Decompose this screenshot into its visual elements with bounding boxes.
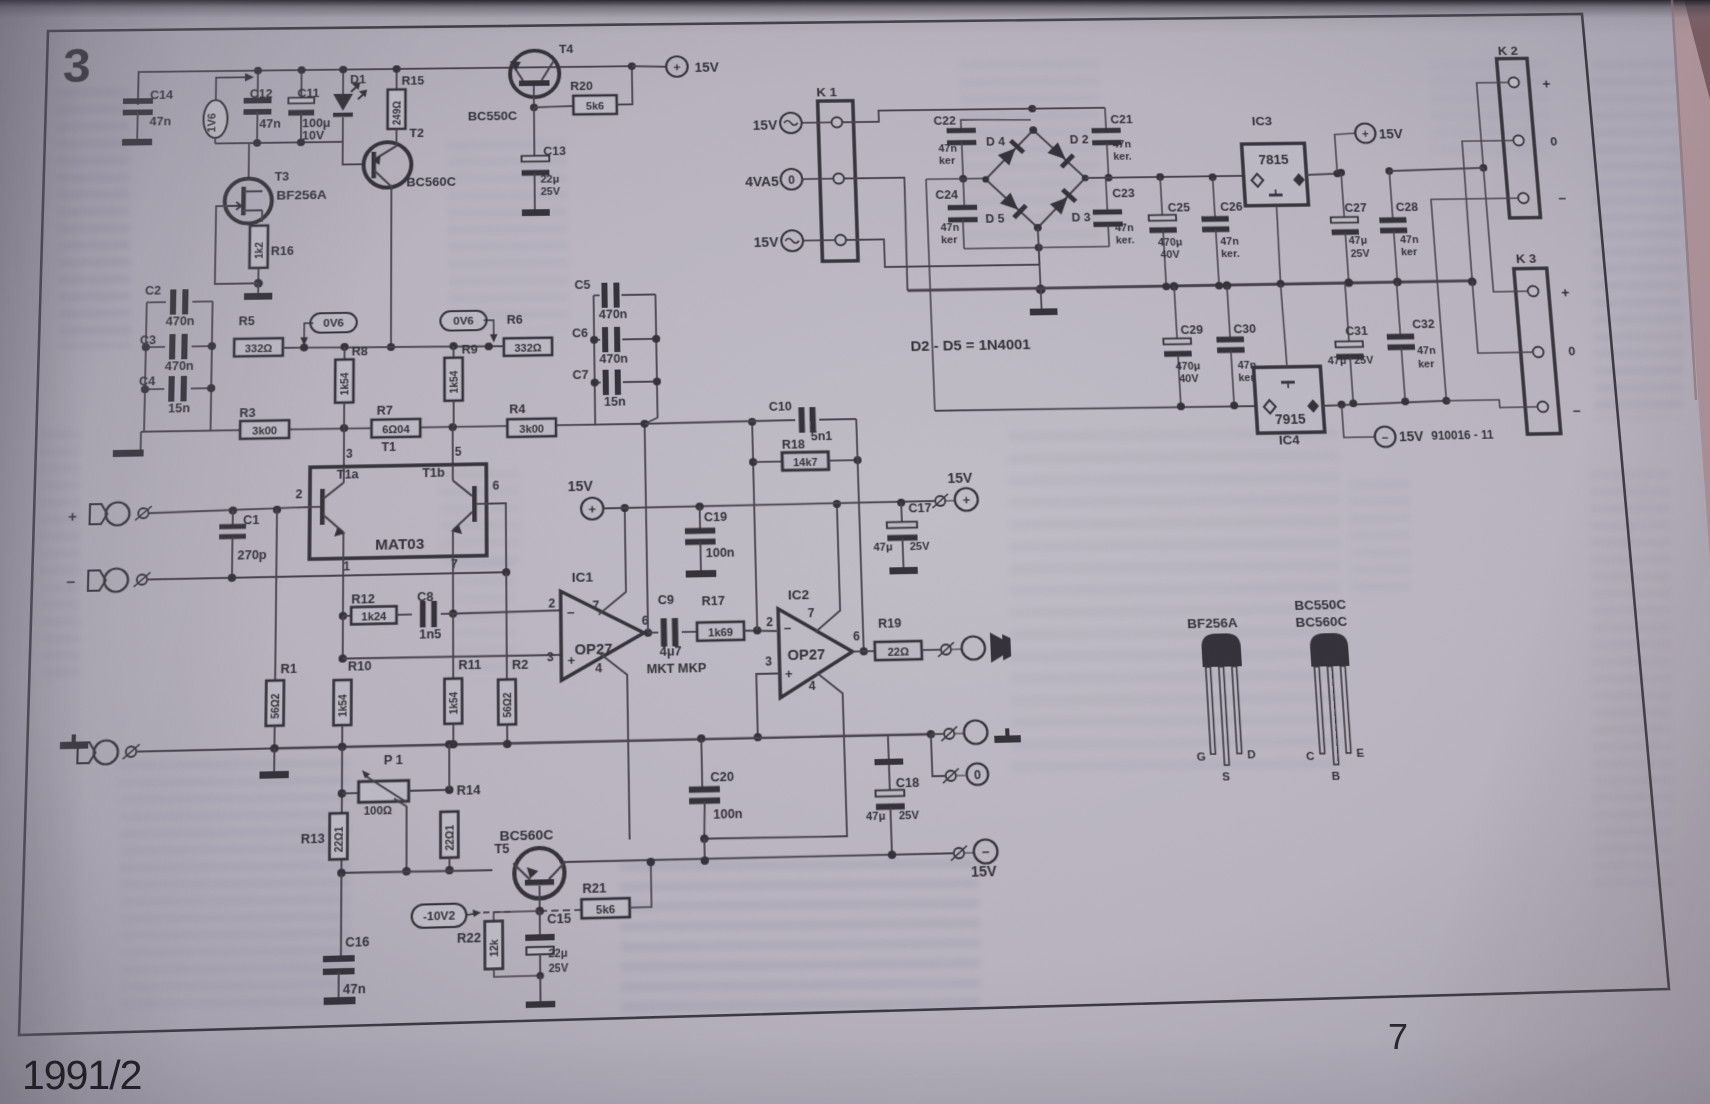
capacitor C20 bbox=[697, 734, 705, 742]
capacitor C24 bbox=[963, 179, 964, 207]
source 15V upper bbox=[780, 113, 802, 134]
wire R16 to ground + gate loop bbox=[257, 268, 259, 283]
terminal +15V top bbox=[632, 66, 665, 67]
ground below C16 bbox=[324, 997, 356, 1005]
capacitor C8 bbox=[397, 613, 412, 615]
wire C20 bottom junctions bbox=[700, 834, 708, 843]
capacitor C11 electrolytic bbox=[300, 70, 302, 100]
resistor R6 bbox=[504, 338, 552, 356]
wire -input line bbox=[148, 572, 506, 579]
wire 1V6 bottom bus bbox=[214, 138, 216, 144]
transistor T1b bbox=[472, 486, 477, 522]
wire +rail to K2 K3 bbox=[1389, 168, 1483, 171]
connector K2 bbox=[1497, 58, 1541, 218]
resistor R17 bbox=[682, 631, 697, 633]
resistor R22 bbox=[494, 911, 540, 922]
capacitor C17 electrolytic bbox=[897, 499, 905, 507]
LED D1 bbox=[342, 70, 344, 94]
resistor R11 bbox=[452, 614, 454, 679]
resistor R13 bbox=[329, 813, 347, 859]
diode D5 bbox=[999, 192, 1028, 219]
capacitor C4 bbox=[145, 388, 164, 390]
terminal +15V supply bbox=[1335, 133, 1358, 173]
capacitor C13 electrolytic bbox=[533, 107, 535, 155]
wire bridge bottom to 0 rail bbox=[1038, 228, 1041, 290]
capacitor C30 bbox=[1222, 281, 1231, 290]
wire T4 base stem bbox=[533, 86, 535, 107]
wire K3 plus from +rail bbox=[1483, 167, 1527, 291]
wire K2 minus riser bbox=[1431, 198, 1534, 401]
label 0V6 left bbox=[310, 313, 357, 333]
resistor R5 bbox=[234, 338, 283, 356]
wire feedback right vertical bbox=[856, 419, 864, 651]
connector K3 bbox=[1514, 268, 1561, 434]
resistor R15 bbox=[396, 69, 398, 90]
capacitor C3 bbox=[146, 346, 165, 348]
wire bridge top corner dot bbox=[1028, 105, 1036, 113]
resistor R7 bbox=[371, 419, 420, 438]
capacitor C9 bbox=[648, 632, 658, 634]
resistor R12 bbox=[343, 615, 351, 617]
wire 1V6 top arrow to C12 bbox=[216, 77, 246, 100]
resistor R8 bbox=[343, 347, 345, 360]
capacitor C23 bbox=[1106, 178, 1108, 211]
wire IC1 output riser bbox=[644, 632, 648, 634]
ground input terminal bbox=[60, 741, 89, 749]
capacitor C16 bbox=[340, 873, 342, 956]
ground below C19 bbox=[686, 570, 717, 578]
wire IC2 pin7 to +15 rail bbox=[812, 504, 841, 632]
wire top +15V rail bbox=[138, 66, 631, 105]
wire D1 to bus bbox=[342, 117, 344, 141]
ground stub left cluster bbox=[140, 432, 142, 450]
wire T3 drain bbox=[248, 143, 250, 179]
resistor R2 bbox=[506, 657, 508, 680]
resistor R14 bbox=[448, 744, 450, 789]
terminal output arrow bbox=[941, 644, 952, 654]
capacitor C25 electrolytic bbox=[1156, 173, 1164, 181]
resistor R20 bbox=[534, 106, 572, 107]
label -10V2 bbox=[412, 903, 467, 928]
page footer labels bbox=[22, 1052, 141, 1099]
wire 0 rail bbox=[907, 281, 1470, 291]
transistor T3 BF256A bbox=[224, 178, 272, 223]
ground below C15 bbox=[526, 1001, 556, 1008]
wire bus to T2 base bbox=[343, 142, 364, 165]
capacitor C15 electrolytic bbox=[539, 911, 541, 934]
wire T2 collector down bbox=[390, 187, 392, 347]
capacitor C28 bbox=[1385, 167, 1393, 175]
diode D2 bbox=[1047, 142, 1075, 169]
wire T3 source to R16 bbox=[261, 210, 263, 221]
wire K3 minus from -rail bbox=[1446, 399, 1537, 408]
ground stub bridge bbox=[1040, 289, 1043, 308]
resistor R3 bbox=[240, 420, 289, 439]
transistor T4 BC550C bbox=[510, 50, 560, 97]
capacitor C32 bbox=[1396, 282, 1400, 336]
capacitor C19 bbox=[696, 502, 704, 510]
wire K2 plus riser bbox=[1477, 82, 1516, 167]
junction dots ground rail bbox=[338, 743, 346, 751]
wire C24 bottom line bbox=[964, 248, 1039, 249]
wire K3 zero drop bbox=[1472, 281, 1532, 353]
capacitor C5 bbox=[594, 295, 596, 425]
wire IC2 output bbox=[853, 650, 875, 652]
IC4 7915 regulator bbox=[1254, 366, 1325, 433]
diode D4 bbox=[997, 139, 1025, 166]
wire T5 emitter bbox=[539, 886, 541, 911]
wire K1p3 negative vertical bbox=[926, 179, 935, 411]
wire T5 collector rail -15V bbox=[563, 852, 952, 863]
wire IC1 pin7 to +15 rail bbox=[597, 508, 626, 615]
wire R8 bottom to pin3 bbox=[343, 428, 345, 467]
wire base rail y856 bbox=[341, 869, 492, 874]
resistor R1 bbox=[273, 506, 281, 514]
capacitor C1 bbox=[229, 506, 237, 514]
wire MAT03 pin1 down bbox=[342, 558, 344, 615]
capacitor C7 bbox=[595, 381, 601, 383]
wire ground rail bbox=[271, 733, 931, 749]
wire bridge left node bbox=[959, 175, 967, 183]
capacitor C31 electrolytic bbox=[1345, 283, 1349, 342]
capacitor C18 electrolytic bbox=[887, 735, 890, 759]
transistor T5 BC560C bbox=[514, 847, 565, 899]
op-amp IC2 OP27 bbox=[778, 607, 854, 698]
wire +15V rail bbox=[603, 501, 934, 508]
potentiometer P1 bbox=[342, 792, 359, 794]
capacitor C21 bbox=[1105, 108, 1106, 129]
terminal ground right bbox=[927, 730, 935, 738]
ground below C17 bbox=[889, 567, 918, 575]
wire +input to MAT03 pin2 bbox=[150, 507, 310, 513]
wire MAT03 pin6 loop bbox=[486, 503, 506, 572]
wire negative rail bbox=[935, 405, 1256, 412]
terminal -15V supply bbox=[1342, 404, 1375, 437]
capacitor C27 electrolytic bbox=[1337, 169, 1345, 177]
transistor T2 BC560C bbox=[363, 142, 411, 188]
wire IC4 ground stub bbox=[1281, 284, 1287, 367]
resistor R21 bbox=[540, 910, 582, 911]
wire C23 bottom bbox=[1039, 246, 1110, 247]
ground stub below R1 bbox=[270, 744, 278, 752]
capacitor C26 bbox=[1208, 173, 1216, 181]
wire IC4 output negative rail bbox=[1323, 401, 1447, 406]
resistor R4 bbox=[507, 418, 556, 437]
ground below C14 bbox=[136, 112, 139, 138]
resistor R16 bbox=[249, 226, 268, 269]
terminal +15V right bbox=[935, 496, 945, 506]
wire feedback left vertical bbox=[752, 422, 757, 631]
wire IC3 output bbox=[1306, 174, 1337, 175]
page edge top right bbox=[1672, 0, 1710, 560]
capacitor C12 bbox=[257, 71, 259, 101]
resistor R19 bbox=[875, 641, 922, 660]
terminal -15V right bbox=[954, 848, 965, 859]
wire K2 zero riser bbox=[1461, 141, 1524, 282]
wire IC1 pin4 down bbox=[599, 652, 629, 840]
IC T1 MAT03 box bbox=[309, 464, 486, 559]
wire + rail bbox=[1082, 175, 1089, 182]
capacitor C2 bbox=[144, 302, 147, 431]
capacitor C10 bbox=[645, 420, 796, 424]
source 0 mid 4VA5 bbox=[780, 169, 802, 190]
ground below C13 bbox=[522, 209, 550, 216]
resistor R9 bbox=[453, 346, 455, 358]
bridge rectifier diamond bbox=[984, 129, 1088, 228]
connector K1 bbox=[818, 101, 858, 262]
wire R13 column bbox=[340, 747, 343, 873]
transistor T1a bbox=[320, 489, 325, 525]
wire K1 pin3 to bridge bottom bbox=[847, 237, 1040, 267]
ground below R16 bbox=[244, 293, 272, 300]
resistor R10 bbox=[333, 680, 351, 726]
junction dots bias rails bbox=[300, 344, 308, 352]
capacitor C6 bbox=[594, 339, 600, 341]
wire MAT03 pin7 down bbox=[452, 556, 454, 613]
capacitor C14 bbox=[123, 98, 153, 104]
wire P1 wiper down bbox=[394, 798, 407, 871]
wire R9 bottom to pin5 bbox=[452, 427, 454, 464]
wire pin1 to IC1 pin3 rail bbox=[342, 616, 344, 659]
wire rail y337 bbox=[283, 344, 504, 350]
faint reverse-side text bleed-through bbox=[57, 88, 132, 349]
wire IC3 ground stub bbox=[1276, 205, 1282, 283]
wire rail y419 bbox=[141, 423, 645, 433]
terminal 0 mid bbox=[931, 734, 945, 776]
wire IC2 pin3 to ground rail bbox=[756, 673, 781, 737]
label 0V6 right bbox=[440, 311, 486, 331]
wire IC2 pin4 down bbox=[700, 672, 847, 840]
diode D3 bbox=[1049, 188, 1077, 215]
wire K1 pin2 to 0 rail bbox=[845, 178, 909, 292]
capacitor C22 bbox=[961, 119, 1032, 132]
source 15V lower bbox=[781, 230, 803, 251]
wire K1 pin1 to bridge top bbox=[842, 109, 1032, 123]
resistor R18 bbox=[753, 461, 782, 464]
wire C8 to IC1 pin2 bbox=[453, 610, 561, 613]
op-amp IC1 OP27 bbox=[561, 590, 645, 681]
capacitor C29 electrolytic bbox=[1169, 282, 1178, 291]
voltage ref 1V6 bbox=[203, 100, 228, 138]
IC3 7815 regulator bbox=[1242, 143, 1309, 206]
